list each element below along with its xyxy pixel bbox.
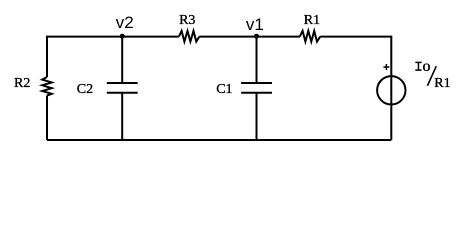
wire bottom: [47, 139, 391, 141]
capacitor C1: [241, 83, 272, 93]
wire left lower: [46, 96, 48, 141]
wire top right: [320, 37, 391, 140]
svg-text:C1: C1: [216, 82, 232, 97]
wire v1 branch upper: [256, 37, 258, 83]
current source U1: [377, 76, 405, 104]
svg-text:v1: v1: [246, 15, 264, 34]
node v2 junction dot: [120, 34, 125, 39]
resistor R3: [179, 31, 199, 42]
plus polarity mark: [383, 64, 389, 70]
resistor R2: [42, 77, 52, 96]
wire C1 lower: [256, 93, 258, 140]
svg-text:R1: R1: [304, 13, 320, 28]
capacitor C2: [107, 83, 138, 93]
svg-text:R3: R3: [179, 13, 195, 28]
svg-text:R1: R1: [434, 76, 450, 91]
svg-text:v2: v2: [116, 13, 134, 32]
wire C2 lower: [121, 93, 123, 140]
wire top left: v2 to left corner: [47, 37, 179, 77]
wire v2 branch upper: [121, 37, 123, 83]
resistor R1: [300, 31, 320, 42]
svg-text:R2: R2: [14, 76, 30, 91]
svg-text:C2: C2: [77, 82, 93, 97]
fraction slash of Io/R1: [427, 66, 436, 86]
node v1 junction dot: [254, 34, 259, 39]
wire v2-to-v1: [199, 36, 299, 38]
label Io numerator: [415, 58, 430, 75]
svg-text:o: o: [423, 58, 431, 75]
